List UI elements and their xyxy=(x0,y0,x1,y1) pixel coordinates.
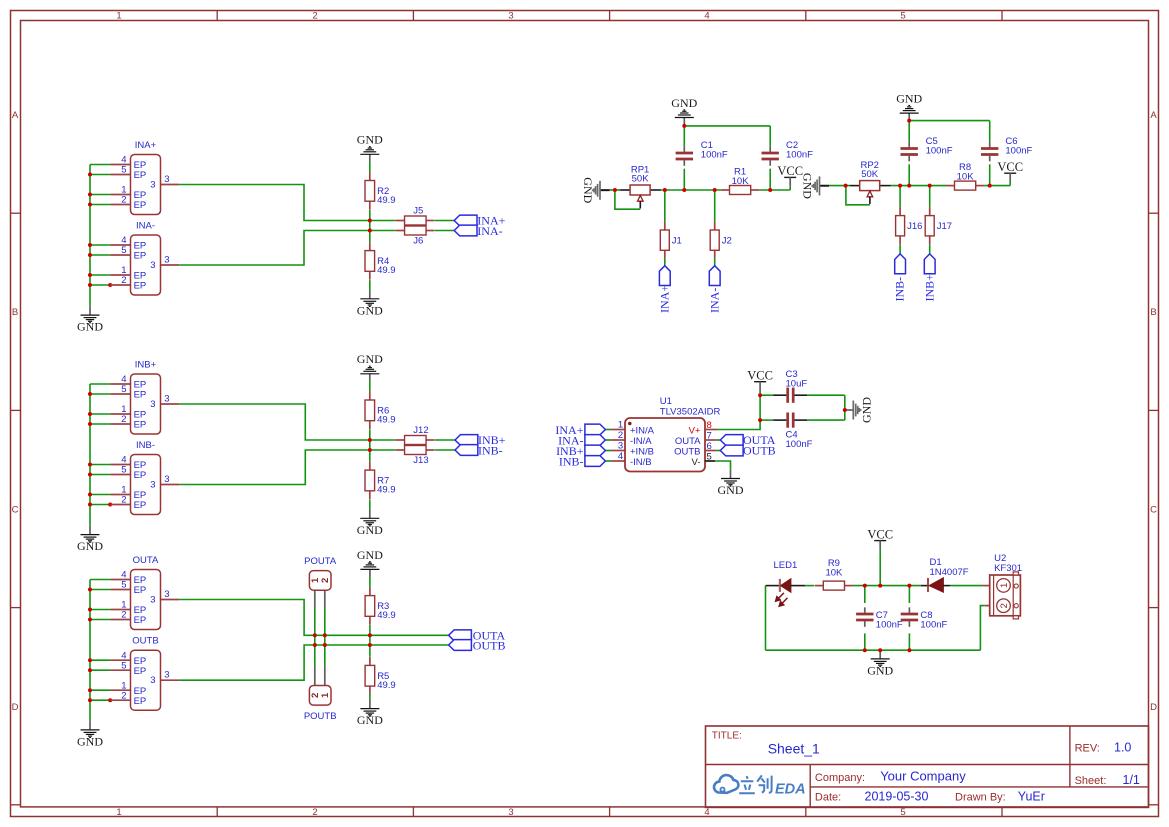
svg-text:5: 5 xyxy=(121,580,126,591)
wire RP1 left xyxy=(610,189,621,191)
svg-text:2: 2 xyxy=(121,275,126,286)
capacitor C1 100nF xyxy=(683,146,685,151)
svg-text:3: 3 xyxy=(164,670,169,681)
svg-text:INB+: INB+ xyxy=(135,359,157,370)
svg-text:EP: EP xyxy=(134,470,147,481)
ground xyxy=(820,185,830,187)
svg-text:2: 2 xyxy=(121,414,126,425)
ground xyxy=(369,374,371,381)
svg-text:2: 2 xyxy=(121,495,126,506)
wire LED cathode xyxy=(766,585,780,587)
svg-text:1: 1 xyxy=(116,807,121,818)
svg-text:3: 3 xyxy=(164,393,169,404)
wire J16 drop xyxy=(899,186,901,208)
svg-text:EP: EP xyxy=(134,666,147,677)
wire J2 to flag xyxy=(714,259,716,266)
svg-text:4: 4 xyxy=(704,10,709,21)
wire net GND xyxy=(600,189,610,191)
wire V- to gnd xyxy=(705,460,715,462)
header POUTA xyxy=(309,571,331,591)
svg-text:J1: J1 xyxy=(672,235,682,246)
junction dots xyxy=(844,184,848,188)
svg-text:4: 4 xyxy=(618,451,623,462)
svg-text:3: 3 xyxy=(150,179,155,190)
ferrite bead J2 xyxy=(714,222,716,230)
svg-text:49.9: 49.9 xyxy=(377,265,396,276)
svg-text:V-: V- xyxy=(692,457,701,468)
connector INA+ xyxy=(110,164,130,166)
svg-text:VCC: VCC xyxy=(777,164,803,178)
svg-text:100nF: 100nF xyxy=(786,439,813,450)
svg-text:GND: GND xyxy=(896,92,922,106)
wire C3/C4 node xyxy=(760,394,773,396)
svg-text:10K: 10K xyxy=(957,171,975,182)
wire net INA- xyxy=(179,231,396,266)
svg-text:2: 2 xyxy=(121,610,126,621)
ground xyxy=(845,409,854,411)
svg-text:3: 3 xyxy=(150,260,155,271)
capacitor C5 100nF xyxy=(908,142,910,147)
resistor R4 49.9 xyxy=(369,242,371,250)
connector OUTA xyxy=(110,579,130,581)
wire J1 to flag xyxy=(664,259,666,266)
svg-text:D: D xyxy=(1150,702,1157,713)
svg-text:5: 5 xyxy=(121,245,126,256)
svg-text:2: 2 xyxy=(312,10,317,21)
svg-text:100nF: 100nF xyxy=(701,150,728,161)
junction dots xyxy=(313,633,317,637)
ground xyxy=(879,650,881,659)
svg-text:49.9: 49.9 xyxy=(377,610,396,621)
wire to VCC xyxy=(984,185,1010,187)
svg-text:Company:: Company: xyxy=(815,772,865,784)
wire D1 to U2 xyxy=(950,585,983,587)
wire C6 bottom xyxy=(989,164,991,185)
svg-text:3: 3 xyxy=(618,441,623,452)
wire net OUTA pins xyxy=(90,579,110,581)
svg-text:-IN/B: -IN/B xyxy=(630,457,652,468)
wire C1 branch xyxy=(683,169,685,190)
svg-text:OUTB: OUTB xyxy=(132,636,158,647)
svg-text:J17: J17 xyxy=(937,221,952,232)
svg-text:J12: J12 xyxy=(413,425,428,436)
svg-text:EP: EP xyxy=(134,281,147,292)
svg-text:J5: J5 xyxy=(413,205,423,216)
connector INB- xyxy=(110,464,130,466)
net flag OUTA xyxy=(449,630,472,641)
svg-text:INA-: INA- xyxy=(477,224,502,238)
ground xyxy=(89,721,91,730)
junction dots xyxy=(613,188,617,192)
ground xyxy=(683,118,685,126)
wire RP2 left xyxy=(829,185,850,187)
ground xyxy=(89,306,91,315)
resistor R8 10K xyxy=(946,185,955,187)
svg-text:B: B xyxy=(12,307,18,318)
wire LED to R9 xyxy=(791,585,805,587)
svg-text:Sheet_1: Sheet_1 xyxy=(768,740,820,756)
potentiometer RP1 50K xyxy=(620,189,630,191)
resistor R1 10K xyxy=(721,189,730,191)
junction dots xyxy=(758,393,762,397)
title block xyxy=(706,726,1149,807)
svg-text:2019-05-30: 2019-05-30 xyxy=(865,789,929,803)
potentiometer RP2 50K xyxy=(850,185,860,187)
svg-text:2: 2 xyxy=(999,603,1010,608)
wire net INB+ xyxy=(179,404,396,440)
resistor R7 49.9 xyxy=(369,462,371,470)
wire J1 drop xyxy=(664,190,666,222)
wire V+ to VCC xyxy=(705,429,717,431)
wire net OUTB pins xyxy=(90,659,110,661)
svg-text:5: 5 xyxy=(121,165,126,176)
wire main node xyxy=(891,185,947,187)
svg-text:INB-: INB- xyxy=(559,454,584,468)
svg-text:3: 3 xyxy=(150,594,155,605)
wire R divider column xyxy=(369,161,371,172)
ferrite bead J13 xyxy=(396,449,405,451)
wire J2 drop xyxy=(714,190,716,222)
svg-text:-IN/A: -IN/A xyxy=(630,436,652,447)
wire R divider column xyxy=(369,576,371,587)
svg-text:+IN/B: +IN/B xyxy=(630,447,654,458)
svg-text:2: 2 xyxy=(121,690,126,701)
junction dots xyxy=(88,173,92,177)
ground xyxy=(89,526,91,535)
ground xyxy=(369,700,371,709)
wire top gnd link xyxy=(909,120,990,122)
svg-text:GND: GND xyxy=(357,548,383,562)
svg-text:OUTB: OUTB xyxy=(674,447,700,458)
svg-text:GND: GND xyxy=(581,177,595,203)
svg-text:OUTB: OUTB xyxy=(743,444,776,458)
wire gnd vertical xyxy=(89,580,91,722)
wire net INA+ xyxy=(179,185,396,221)
svg-text:100nF: 100nF xyxy=(786,150,813,161)
wire net GND xyxy=(820,185,830,187)
svg-text:49.9: 49.9 xyxy=(377,680,396,691)
wire POUTB legs xyxy=(314,667,316,686)
svg-text:INB+: INB+ xyxy=(922,274,936,302)
svg-text:INA-: INA- xyxy=(136,220,155,231)
svg-text:EP: EP xyxy=(134,500,147,511)
svg-text:GND: GND xyxy=(357,713,383,727)
svg-text:C: C xyxy=(1150,504,1157,515)
connector INA- xyxy=(110,244,130,246)
net flag INB- xyxy=(585,456,606,467)
wire main node xyxy=(661,189,721,191)
ferrite bead J6 xyxy=(396,230,405,232)
svg-text:1.0: 1.0 xyxy=(1114,741,1131,755)
net flag OUTB xyxy=(449,640,472,651)
svg-text:GND: GND xyxy=(77,735,103,749)
svg-text:INA-: INA- xyxy=(707,288,721,313)
junction dots xyxy=(368,438,372,442)
capacitor C3 10uF xyxy=(773,394,786,396)
svg-text:EP: EP xyxy=(134,585,147,596)
svg-text:B: B xyxy=(1150,307,1156,318)
capacitor C2 100nF xyxy=(769,146,771,151)
svg-text:3: 3 xyxy=(164,474,169,485)
svg-text:5: 5 xyxy=(900,807,905,818)
svg-text:INA+: INA+ xyxy=(135,140,157,151)
svg-text:3: 3 xyxy=(150,399,155,410)
svg-text:Your Company: Your Company xyxy=(880,768,966,783)
svg-text:2: 2 xyxy=(121,195,126,206)
net flag INA- xyxy=(585,435,606,446)
wire J16 to flag xyxy=(899,244,901,254)
wire bottom bus xyxy=(766,649,981,651)
svg-text:LED1: LED1 xyxy=(774,560,798,571)
wire to VCC xyxy=(759,189,790,191)
junction dots xyxy=(368,219,372,223)
svg-text:EP: EP xyxy=(134,390,147,401)
svg-text:GND: GND xyxy=(357,303,383,317)
ground xyxy=(908,113,910,121)
net flag INA- xyxy=(709,266,720,286)
svg-text:Drawn By:: Drawn By: xyxy=(955,791,1006,803)
svg-text:2: 2 xyxy=(320,578,331,583)
net flag OUTA xyxy=(720,435,743,446)
wire net OUTB xyxy=(179,645,448,680)
net flag INB+ xyxy=(924,254,935,274)
svg-text:GND: GND xyxy=(800,173,814,199)
svg-text:3: 3 xyxy=(150,479,155,490)
junction dots xyxy=(88,392,92,396)
svg-text:100nF: 100nF xyxy=(926,145,953,156)
svg-text:OUTA: OUTA xyxy=(133,555,159,566)
wire main node xyxy=(853,585,921,587)
svg-text:INB-: INB- xyxy=(136,440,155,451)
svg-text:+IN/A: +IN/A xyxy=(630,426,655,437)
wire gnd vertical xyxy=(89,165,91,307)
net flag INB+ xyxy=(455,435,478,446)
svg-text:GND: GND xyxy=(357,523,383,537)
logo EasyEDA xyxy=(714,775,738,793)
wire C5 branch xyxy=(908,164,910,185)
svg-text:EDA: EDA xyxy=(775,782,806,798)
svg-text:VCC: VCC xyxy=(747,369,773,383)
svg-text:EP: EP xyxy=(134,251,147,262)
svg-text:1: 1 xyxy=(999,583,1010,588)
svg-text:3: 3 xyxy=(508,10,513,21)
wire J17 drop xyxy=(929,186,931,208)
wire net INB- pins xyxy=(90,464,110,466)
svg-text:1/1: 1/1 xyxy=(1123,773,1140,787)
svg-text:INB-: INB- xyxy=(478,443,503,457)
svg-text:50K: 50K xyxy=(632,174,650,185)
resistor R9 10K xyxy=(815,585,824,587)
net flag INA+ xyxy=(454,215,477,226)
capacitor C8 100nF xyxy=(908,586,910,603)
svg-text:2: 2 xyxy=(312,807,317,818)
wire C2 bottom xyxy=(769,169,771,190)
svg-text:GND: GND xyxy=(671,96,697,110)
svg-text:3: 3 xyxy=(164,254,169,265)
svg-text:OUTA: OUTA xyxy=(675,436,701,447)
ground xyxy=(369,510,371,519)
svg-text:YuEr: YuEr xyxy=(1018,789,1045,803)
svg-text:GND: GND xyxy=(77,320,103,334)
ground xyxy=(369,154,371,161)
net flag INA+ xyxy=(659,266,670,286)
header POUTB xyxy=(309,686,331,706)
svg-text:10K: 10K xyxy=(732,176,750,187)
svg-text:50K: 50K xyxy=(861,169,879,180)
wire U2 pin2 xyxy=(985,605,990,607)
svg-text:3: 3 xyxy=(508,807,513,818)
svg-text:3: 3 xyxy=(164,174,169,185)
svg-text:1N4007F: 1N4007F xyxy=(930,567,969,578)
capacitor C4 100nF xyxy=(773,419,786,421)
ferrite bead J1 xyxy=(664,222,666,230)
svg-text:VCC: VCC xyxy=(867,527,893,541)
svg-text:4: 4 xyxy=(704,807,709,818)
svg-text:5: 5 xyxy=(121,660,126,671)
svg-text:Date:: Date: xyxy=(815,791,841,803)
svg-text:5: 5 xyxy=(900,10,905,21)
svg-text:OUTB: OUTB xyxy=(473,638,506,652)
net flag INA- xyxy=(454,225,477,236)
ground xyxy=(369,290,371,299)
svg-text:POUTB: POUTB xyxy=(304,711,337,722)
svg-text:TITLE:: TITLE: xyxy=(712,731,742,742)
svg-text:2: 2 xyxy=(618,430,623,441)
net flag INB- xyxy=(895,254,906,274)
wire net INB- xyxy=(179,450,396,485)
svg-text:VCC: VCC xyxy=(997,160,1023,174)
wire net INA- pins xyxy=(90,244,110,246)
capacitor C6 100nF xyxy=(989,142,991,147)
svg-text:49.9: 49.9 xyxy=(377,415,396,426)
capacitor C7 100nF xyxy=(864,586,866,603)
svg-text:D: D xyxy=(12,702,19,713)
svg-text:10uF: 10uF xyxy=(786,379,808,390)
resistor R5 49.9 xyxy=(369,657,371,665)
ferrite bead J5 xyxy=(396,220,405,222)
wire gnd vertical xyxy=(89,384,91,526)
svg-text:A: A xyxy=(1150,110,1157,121)
wire OUTA pin xyxy=(705,439,716,441)
junction dots xyxy=(863,584,867,588)
svg-text:A: A xyxy=(12,110,19,121)
connector OUTB xyxy=(110,659,130,661)
net flag INA+ xyxy=(585,424,606,435)
wire OUTB pin xyxy=(705,450,716,452)
svg-text:100nF: 100nF xyxy=(876,620,903,631)
ground xyxy=(600,189,610,191)
svg-text:GND: GND xyxy=(357,133,383,147)
svg-text:1: 1 xyxy=(618,420,623,431)
connector INB+ xyxy=(110,383,130,385)
svg-text:1: 1 xyxy=(320,692,331,698)
svg-text:100nF: 100nF xyxy=(1005,145,1032,156)
svg-text:49.9: 49.9 xyxy=(377,195,396,206)
resistor R2 49.9 xyxy=(369,172,371,180)
resistor R6 49.9 xyxy=(369,392,371,400)
svg-text:10K: 10K xyxy=(825,567,843,578)
svg-text:EP: EP xyxy=(134,170,147,181)
wire J17 to flag xyxy=(929,244,931,254)
wire net INB+ pins xyxy=(90,383,110,385)
svg-text:J6: J6 xyxy=(413,236,423,247)
ferrite bead J17 xyxy=(929,207,931,215)
svg-text:100nF: 100nF xyxy=(920,620,947,631)
resistor R3 49.9 xyxy=(369,587,371,595)
ferrite bead J12 xyxy=(396,439,405,441)
svg-text:J16: J16 xyxy=(907,221,922,232)
ground xyxy=(730,470,732,479)
svg-text:REV:: REV: xyxy=(1075,743,1100,755)
net flag INB- xyxy=(455,445,478,456)
net flag INB+ xyxy=(585,445,606,456)
junction dots xyxy=(88,588,92,592)
wire U1 input pins xyxy=(605,429,611,431)
svg-text:J13: J13 xyxy=(413,455,428,466)
wire net OUTA xyxy=(179,600,448,636)
svg-text:GND: GND xyxy=(357,352,383,366)
svg-text:TLV3502AIDR: TLV3502AIDR xyxy=(660,407,721,418)
wire top gnd link xyxy=(684,125,770,127)
svg-text:INB-: INB- xyxy=(893,277,907,302)
svg-text:EP: EP xyxy=(134,200,147,211)
svg-text:GND: GND xyxy=(867,664,893,678)
svg-text:EP: EP xyxy=(134,615,147,626)
wire net INA+ pins xyxy=(90,164,110,166)
svg-text:GND: GND xyxy=(859,397,873,423)
svg-text:GND: GND xyxy=(718,483,744,497)
ground xyxy=(369,569,371,576)
net flag OUTB xyxy=(720,445,743,456)
svg-text:EP: EP xyxy=(134,420,147,431)
wire to right gnd xyxy=(807,394,845,396)
svg-text:Sheet:: Sheet: xyxy=(1075,775,1107,787)
svg-text:1: 1 xyxy=(116,10,121,21)
svg-text:49.9: 49.9 xyxy=(377,485,396,496)
svg-text:3: 3 xyxy=(164,589,169,600)
svg-text:POUTA: POUTA xyxy=(304,556,337,567)
svg-text:C: C xyxy=(12,504,19,515)
svg-text:V+: V+ xyxy=(689,426,701,437)
wire R divider column xyxy=(369,381,371,392)
wire POUTA legs xyxy=(314,590,316,609)
op-amp U1 TLV3502AIDR xyxy=(625,418,705,472)
svg-text:GND: GND xyxy=(77,539,103,553)
svg-text:J2: J2 xyxy=(722,235,732,246)
ferrite bead J16 xyxy=(899,207,901,215)
svg-text:5: 5 xyxy=(121,384,126,395)
svg-text:INA+: INA+ xyxy=(657,285,671,313)
svg-text:5: 5 xyxy=(121,465,126,476)
svg-text:3: 3 xyxy=(150,675,155,686)
svg-text:EP: EP xyxy=(134,696,147,707)
